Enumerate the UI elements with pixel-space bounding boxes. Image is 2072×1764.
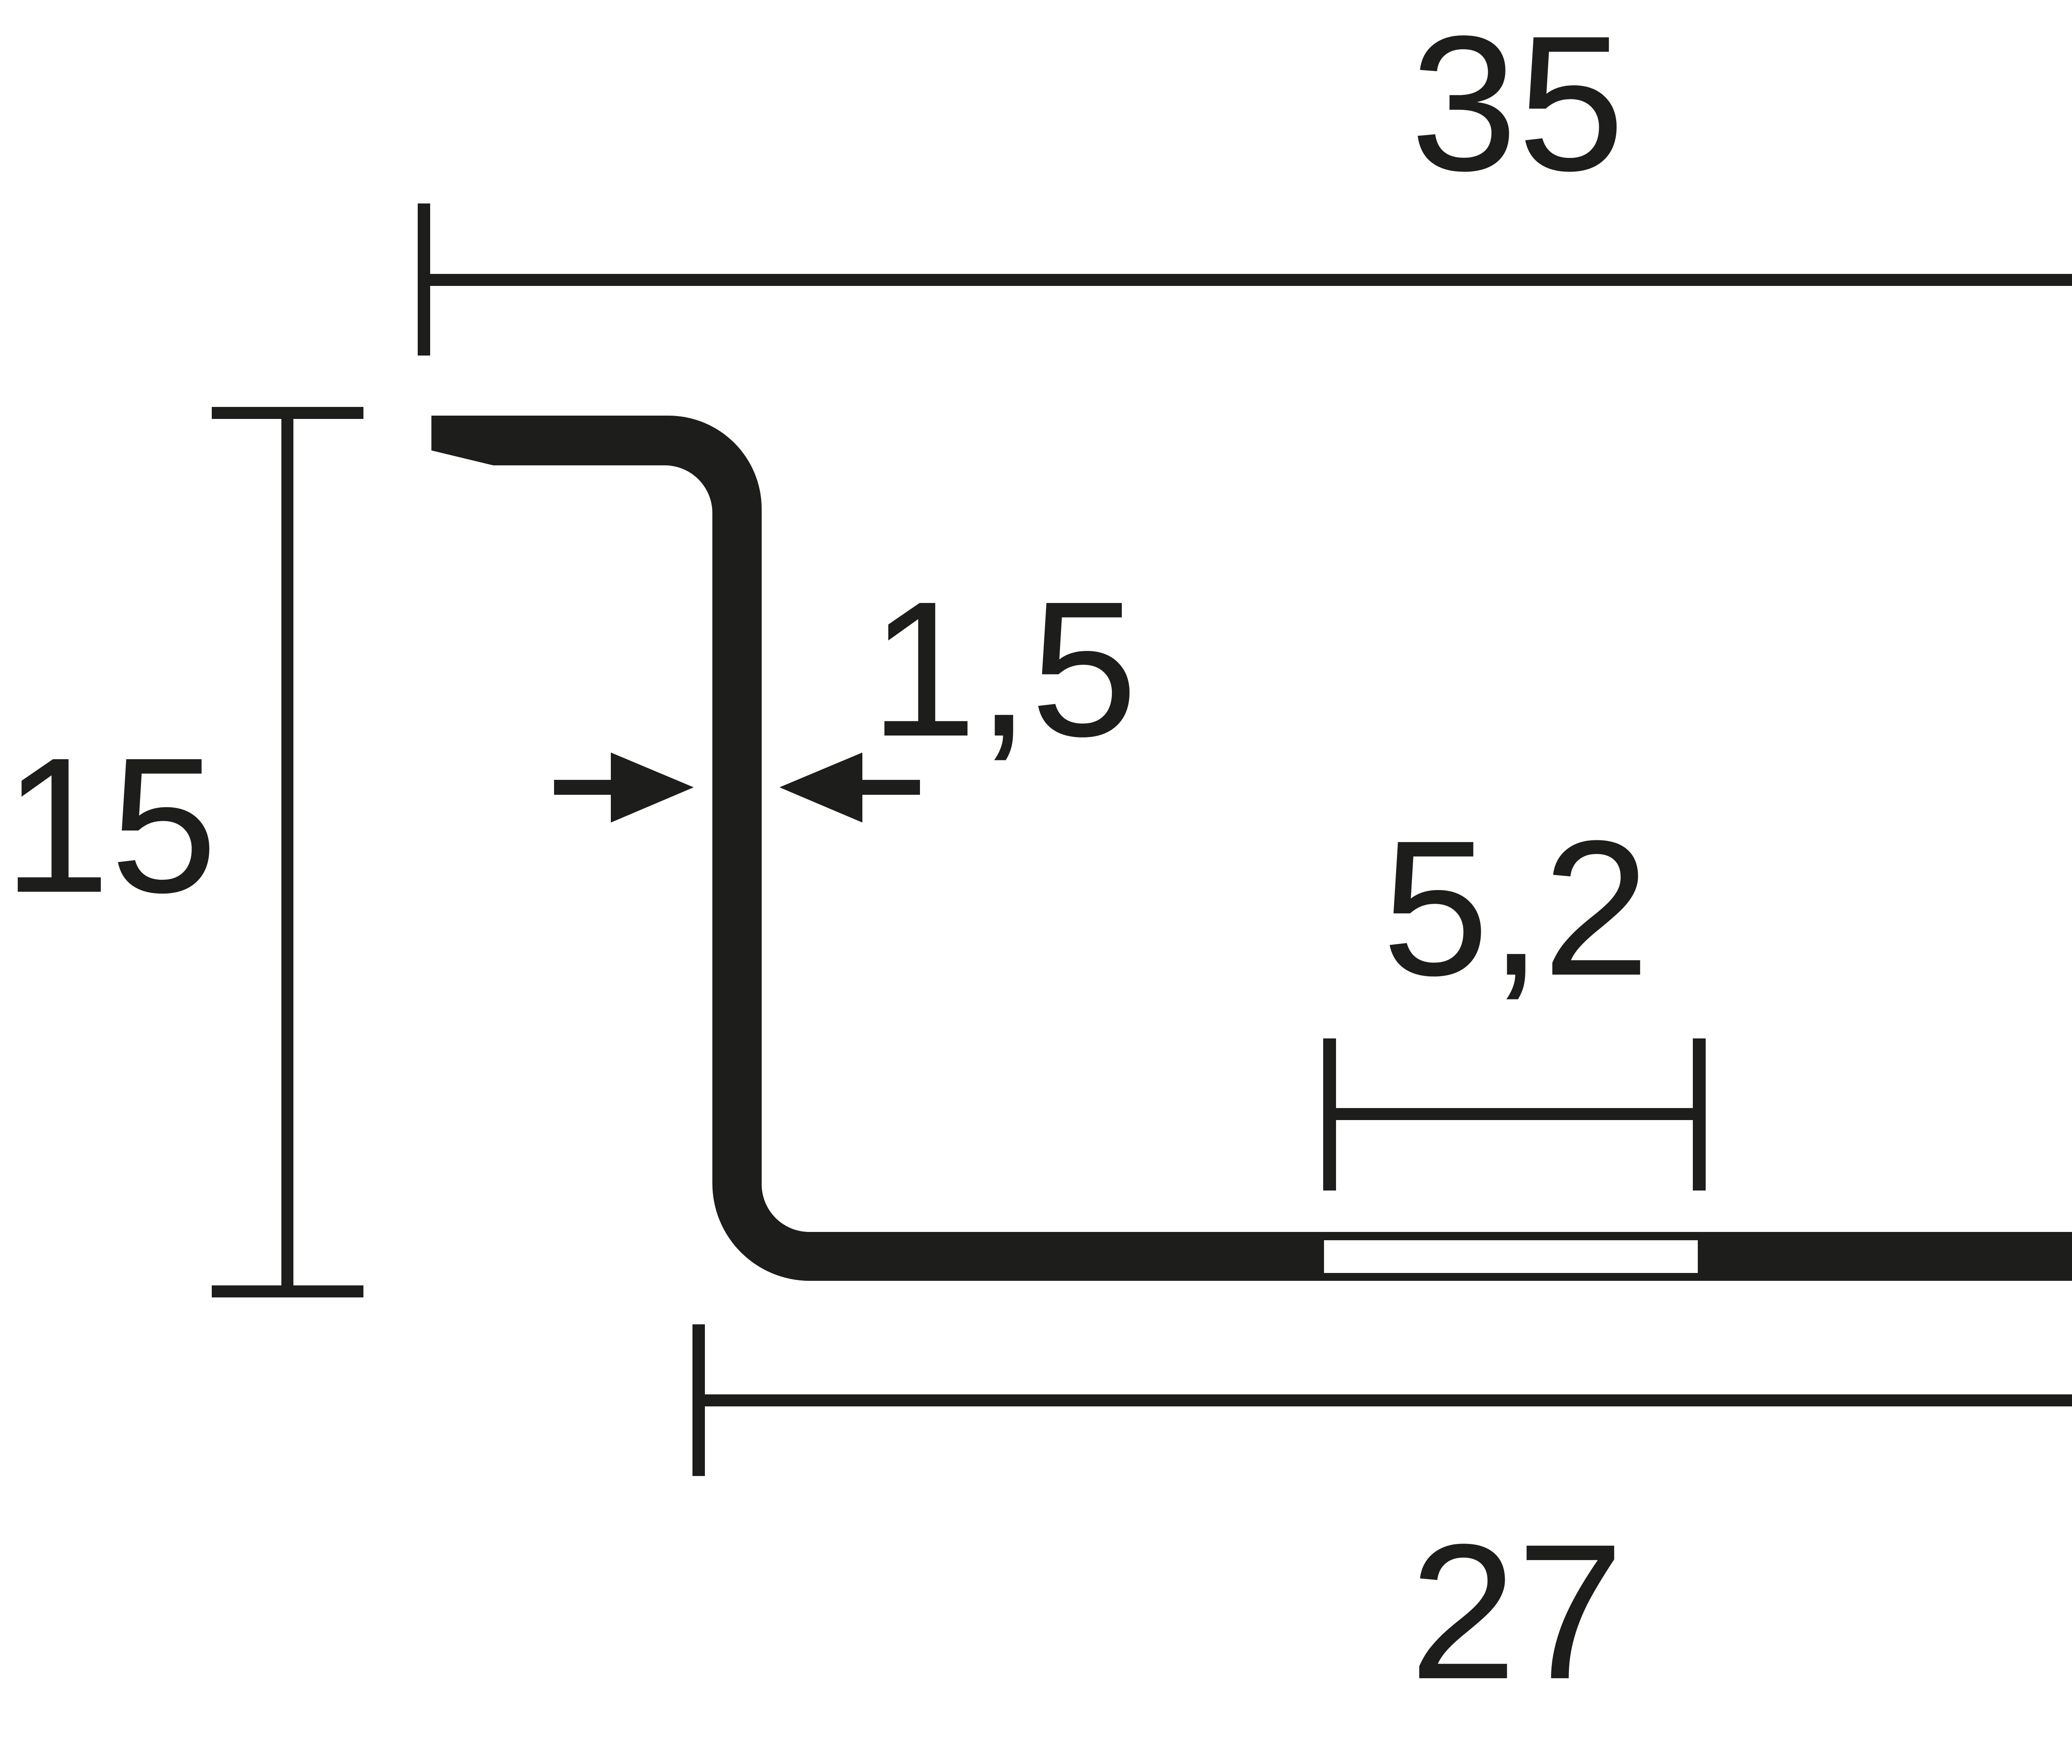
slot window in bottom web bbox=[1324, 1240, 1698, 1273]
dimension 27: left tick bbox=[692, 1324, 705, 1476]
svg-text:35: 35 bbox=[1410, 0, 1624, 211]
dimension 1,5: right-pointing arrow shaft bbox=[554, 780, 612, 795]
svg-text:15: 15 bbox=[3, 717, 217, 933]
svg-text:27: 27 bbox=[1409, 1504, 1624, 1719]
svg-text:1,5: 1,5 bbox=[870, 561, 1138, 777]
dimension 1,5: left-pointing arrow head bbox=[779, 753, 862, 823]
DIN rail profile cross-section bbox=[431, 416, 2072, 1281]
dimension 5,2: left tick bbox=[1323, 1038, 1336, 1191]
dimension 15: bottom tick bbox=[212, 1285, 363, 1297]
dimension 5,2: line bbox=[1329, 1108, 1699, 1120]
dimension 5,2: right tick bbox=[1693, 1038, 1706, 1191]
dimension 1,5: right-pointing arrow head bbox=[611, 753, 694, 823]
dimension 35: left tick bbox=[418, 203, 430, 356]
dimension 1,5: left-pointing arrow shaft bbox=[861, 780, 920, 795]
svg-text:5,2: 5,2 bbox=[1382, 800, 1650, 1016]
dimension 27: line bbox=[699, 1394, 2072, 1406]
dimension 35: line bbox=[424, 274, 2072, 286]
dimension 15: top tick bbox=[212, 407, 363, 419]
dimension 15: line bbox=[281, 407, 293, 1297]
